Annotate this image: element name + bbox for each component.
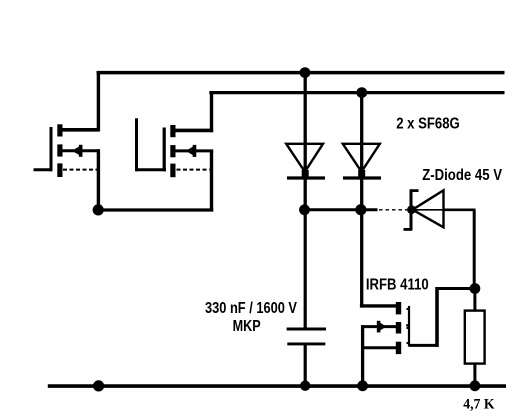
svg-text:MKP: MKP [233, 318, 261, 335]
node [300, 67, 311, 78]
node [470, 283, 481, 294]
transistor Q1 [34, 124, 100, 177]
wire [210, 91, 213, 132]
diode D1 [286, 72, 325, 210]
node [299, 204, 310, 215]
transistor Q3 IRFB 4110 [360, 302, 438, 354]
resistor R1 [465, 289, 485, 388]
svg-text:330 nF / 1600 V: 330 nF / 1600 V [205, 300, 298, 317]
wire [444, 209, 476, 212]
wire [360, 210, 363, 308]
wire [361, 325, 364, 387]
node [357, 380, 368, 391]
wire [436, 287, 475, 290]
svg-text:4,7 K: 4,7 K [463, 396, 495, 412]
diode D2 [343, 93, 381, 210]
node [93, 204, 104, 215]
top rail 1 [97, 71, 505, 75]
transistor Q2 [135, 118, 213, 177]
wire [97, 208, 214, 211]
wire [210, 151, 213, 212]
wire [97, 149, 100, 211]
wire dashed [379, 209, 410, 211]
ground rail [48, 384, 506, 388]
capacitor C1 [287, 210, 326, 387]
wire [305, 208, 362, 211]
svg-text:Z-Diode 45 V: Z-Diode 45 V [422, 167, 502, 184]
wire [361, 208, 378, 211]
svg-text:IRFB 4110: IRFB 4110 [366, 276, 429, 293]
node [93, 380, 104, 391]
wire [97, 71, 100, 131]
svg-text:2 x SF68G: 2 x SF68G [396, 115, 460, 132]
node [355, 204, 366, 215]
wire [473, 210, 476, 289]
node [300, 381, 310, 391]
node [356, 87, 367, 98]
node [407, 205, 416, 214]
zener diode Z-Diode 45 V [404, 190, 444, 231]
wire [435, 287, 439, 347]
top rail 2 [209, 91, 504, 94]
node [470, 380, 481, 391]
